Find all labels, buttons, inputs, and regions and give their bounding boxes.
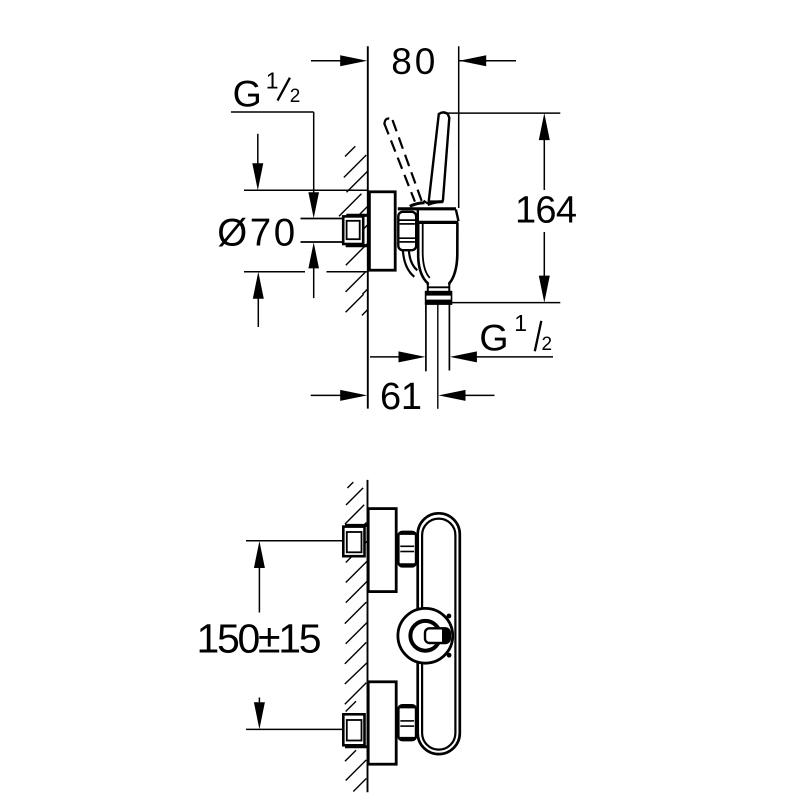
svg-text:2: 2 [542, 334, 553, 355]
dimension G1/2 hose [370, 356, 399, 358]
label G 1/2 top [233, 68, 301, 115]
lever handle dashed position [384, 123, 415, 201]
knob boss circle (front view) [398, 608, 453, 663]
svg-text:2: 2 [290, 86, 301, 107]
shower hose (side view) [425, 304, 427, 371]
escutcheon upper (front view) [368, 509, 396, 592]
dimension diameter 70 [244, 134, 368, 327]
svg-text:1: 1 [266, 68, 279, 94]
wall line (side view) [367, 46, 369, 408]
square fitting upper (front view) [343, 527, 364, 557]
union nut upper (front view) [398, 532, 416, 567]
wall hatching (side view) [339, 146, 368, 315]
supply pipe G1/2 (side view) [301, 219, 344, 241]
escutcheon lower (front view) [368, 682, 396, 764]
escutcheon (side view) [369, 192, 395, 270]
leader dimension G1/2 top (pipe) [231, 111, 314, 113]
svg-text:Ø70: Ø70 [217, 211, 295, 254]
outlet neck (side view) [427, 284, 429, 292]
svg-text:61: 61 [380, 376, 422, 418]
s-union curve (side view) [403, 250, 414, 276]
dimension 164 [444, 113, 560, 303]
union nut (side view) [398, 212, 416, 250]
outlet collar (side view) [426, 292, 452, 305]
union flange lips (side view) [346, 214, 367, 217]
lever handle solid (side view) [429, 112, 450, 201]
square fitting (side view) [343, 216, 363, 244]
square fitting lower (front view) [343, 714, 364, 745]
label G 1/2 bottom [479, 310, 552, 358]
body bowl (side view) [418, 223, 428, 285]
knob inner ring [410, 621, 440, 651]
svg-text:150±15: 150±15 [197, 615, 322, 661]
hose centre line [437, 304, 439, 409]
dimension 61 [311, 394, 341, 396]
wall line (front view) [367, 480, 369, 792]
svg-text:164: 164 [515, 189, 577, 231]
wall hatching (front view) [345, 482, 368, 791]
knob lever tab [425, 628, 450, 643]
svg-text:G: G [233, 73, 262, 115]
union nut lower (front view) [398, 705, 416, 740]
svg-text:1: 1 [514, 310, 527, 336]
svg-text:G: G [479, 316, 508, 358]
body capsule (front view) [418, 513, 460, 754]
union flange lip upper (front view) [345, 524, 367, 527]
dimension 80 [311, 46, 516, 208]
union flange lip lower (front view) [345, 745, 367, 748]
body cap (side view) [417, 209, 419, 222]
screw dots [447, 614, 452, 619]
dimension 150 plus/minus 15 [246, 541, 346, 730]
